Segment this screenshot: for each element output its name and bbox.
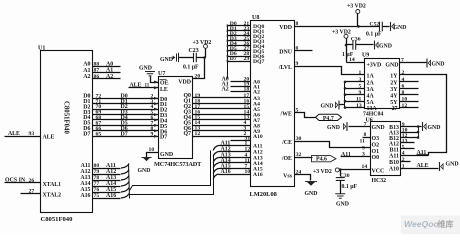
svg-text:O0: O0: [372, 155, 380, 161]
U9 3A pin 5: [345, 88, 365, 90]
GND symbol at U6 pin 7: [346, 122, 348, 131]
svg-text:D7: D7: [83, 131, 90, 137]
ground symbol at U8 Vss: [307, 182, 316, 186]
svg-text:GND: GND: [432, 62, 445, 68]
bus entry hook A12 (left): [121, 170, 129, 175]
U6 A10 wire / net ALE: [401, 168, 439, 170]
U8 A13 pin 4 stub / net A13: [219, 157, 251, 159]
U8 A1 pin 19 stub / net A1: [231, 86, 251, 88]
svg-text:88: 88: [94, 61, 100, 67]
U7 Q1 pin 18 wire to U8 A4: [193, 103, 251, 105]
svg-text:14: 14: [349, 57, 355, 63]
U7 Q5 pin 14 wire to U8 A8: [193, 125, 251, 127]
svg-text:30: 30: [296, 136, 302, 142]
U1 pin 76 A15 wire / net A15: [93, 192, 121, 194]
svg-text:P4.6: P4.6: [316, 157, 327, 163]
U6 B11 stub: [401, 148, 415, 150]
svg-text:1Y: 1Y: [390, 73, 398, 79]
U9 input bus vertical (tied inputs): [344, 82, 346, 108]
bus entry hook A11 (left): [121, 164, 129, 169]
svg-text:8: 8: [296, 21, 299, 27]
U8 DQ5 pin 27 stub / net D5: [228, 50, 251, 52]
svg-text:GND: GND: [394, 25, 407, 31]
U8 A10 pin 31 stub: [231, 140, 251, 142]
svg-text:/LVL: /LVL: [278, 65, 292, 71]
svg-text:1: 1: [359, 70, 362, 76]
svg-text:4A: 4A: [367, 93, 375, 99]
svg-text:/CE: /CE: [281, 140, 292, 146]
bus exit hook A15 (right riser): [213, 169, 218, 174]
svg-text:P4.7: P4.7: [323, 116, 334, 122]
svg-text:+3 VD2: +3 VD2: [347, 4, 366, 10]
U7 OE pin wire from GND: [151, 77, 159, 83]
svg-text:9: 9: [151, 131, 154, 137]
U8 A15 pin 7 stub / net A15: [219, 168, 251, 170]
svg-text:86: 86: [94, 74, 100, 80]
U1 pin 65 D7 wire to U7 / net D7: [93, 136, 159, 138]
svg-text:GND: GND: [138, 168, 151, 174]
svg-text:11: 11: [360, 139, 366, 145]
IC U8 memory LM20L08 body: [251, 21, 295, 187]
svg-text:A2: A2: [83, 74, 90, 80]
svg-text:VDD: VDD: [178, 80, 191, 86]
svg-text:13: 13: [356, 103, 362, 109]
svg-text:GND: GND: [139, 66, 152, 72]
bus exit hook A12 (right riser): [213, 152, 218, 157]
U8 A16 pin 10 stub / net A16: [219, 174, 251, 176]
U7 VDD pin 20 wire to +3VD2 node: [193, 58, 205, 79]
U9 4A pin 9: [345, 94, 365, 96]
svg-text:维库: 维库: [438, 219, 454, 229]
svg-text:U1: U1: [38, 46, 45, 52]
svg-text:LM20L08: LM20L08: [250, 191, 277, 198]
svg-text:93: 93: [29, 131, 35, 137]
U1 pin 66 D6 wire to U7 / net D6: [93, 130, 159, 132]
U8 data bus vertical: [227, 25, 229, 79]
svg-text:A16: A16: [221, 169, 231, 175]
svg-text:A2: A2: [253, 89, 260, 95]
svg-text:26: 26: [29, 178, 35, 184]
bus exit hook A16 (right riser): [213, 174, 218, 179]
svg-text:3: 3: [359, 77, 362, 83]
U6 A11 wire / net A11: [401, 155, 429, 157]
bus exit hook A14 (right riser): [213, 163, 218, 168]
U8 DQ7 pin 29 stub / net D7: [228, 61, 251, 63]
U1 pin 75 A16 wire / net A16: [93, 198, 121, 200]
svg-text:VDD: VDD: [279, 25, 292, 31]
svg-text:9: 9: [359, 90, 362, 96]
svg-text:2Y: 2Y: [390, 81, 398, 87]
U1 pin 78 A13 wire / net A13: [93, 180, 121, 182]
svg-text:18: 18: [244, 86, 250, 92]
U8 A2 pin 18 stub / net A2: [231, 91, 251, 93]
power tap circle for C36 rail: [344, 34, 348, 38]
svg-text:HC32: HC32: [372, 178, 387, 184]
svg-text:D7: D7: [121, 131, 128, 137]
WeeQoo watermark: [401, 216, 460, 235]
junction C36: [345, 44, 348, 47]
U1 pin 71 D1 wire to U7 / net D1: [93, 103, 159, 105]
svg-text:+3VD: +3VD: [367, 63, 382, 69]
U8 Vss pin 24 wire to ground: [295, 175, 311, 181]
svg-text:C8051F040: C8051F040: [62, 101, 69, 134]
svg-text:27: 27: [392, 106, 398, 112]
U6 B12 wire: [401, 137, 419, 139]
svg-text:LE: LE: [160, 87, 168, 93]
svg-text:ALE: ALE: [43, 135, 55, 141]
svg-text:GND: GND: [372, 125, 385, 131]
capacitor C23 0.1uF: [194, 53, 197, 63]
svg-text:B10: B10: [389, 160, 399, 166]
svg-text:MC74HC573ADT: MC74HC573ADT: [154, 161, 202, 168]
U7 Q3 pin 16 wire to U8 A6: [193, 114, 251, 116]
svg-text:9: 9: [296, 61, 299, 67]
bus entry hook A13 (left): [121, 176, 129, 181]
svg-text:4Y: 4Y: [390, 93, 398, 99]
U9 GND pin 7 wire to GND: [400, 62, 427, 64]
svg-text:12: 12: [195, 131, 201, 137]
capacitor C30 0.1uF to GND: [340, 170, 342, 177]
svg-text:0.1 µF: 0.1 µF: [183, 65, 199, 71]
U6 A13 wire: [401, 132, 419, 134]
svg-text:GND: GND: [321, 104, 334, 110]
svg-text:0.1 µF: 0.1 µF: [366, 32, 382, 38]
svg-text:75: 75: [94, 193, 100, 199]
GND at U6 A10: [439, 162, 441, 171]
U7 Q4 pin 15 wire to U8 A7: [193, 119, 251, 121]
U8 DNU pin 6 stub: [295, 50, 313, 52]
U7 Q7 pin 12 wire to U8 A10: [193, 136, 251, 138]
svg-text:A0: A0: [106, 61, 113, 67]
IC U6 HC32 body: [371, 122, 401, 176]
U7 Q2 pin 17 wire to U8 A5: [193, 108, 251, 110]
svg-text:5A: 5A: [367, 100, 375, 106]
address bus band bottom edge: [130, 155, 214, 195]
svg-text:A1: A1: [106, 68, 113, 74]
U1 pin 79 A12 wire / net A12: [93, 174, 121, 176]
svg-text:U9: U9: [362, 53, 369, 59]
svg-text:A0: A0: [83, 62, 90, 68]
ground symbol below U7: [143, 158, 151, 162]
GND tie on U9 input bus: [340, 104, 345, 106]
svg-text:OE: OE: [160, 81, 169, 87]
junction +3VD2 / VDD: [357, 25, 360, 28]
svg-text:A11: A11: [417, 150, 427, 156]
U9 13A pin 13: [345, 107, 365, 109]
U8 A12 pin 12 stub / net A12: [219, 151, 251, 153]
svg-text:3A: 3A: [367, 87, 375, 93]
U8 DQ0 pin 21 stub / net D0: [228, 25, 251, 27]
U8 /OE pin 32 wire to P4.6: [295, 157, 313, 159]
svg-text:31: 31: [245, 136, 251, 142]
svg-text:GND: GND: [446, 162, 459, 168]
U8 /WE pin 5 wire to P4.7: [295, 113, 316, 118]
svg-text:7: 7: [401, 58, 404, 64]
svg-text:O3: O3: [372, 136, 380, 142]
svg-text:Vss: Vss: [283, 174, 293, 180]
IC U1 C8051F040 microcontroller body: [41, 51, 93, 213]
U1 pin 87 A1 wire / net A1: [93, 72, 121, 74]
U8 A11 pin 1 stub / net A11: [219, 145, 251, 147]
U9 5A pin 11: [345, 101, 365, 103]
svg-text:A2: A2: [106, 74, 113, 80]
U1 pin 67 D5 wire to U7 / net D5: [93, 125, 159, 127]
svg-text:/WE: /WE: [280, 112, 293, 118]
svg-text:+3 VD2: +3 VD2: [332, 30, 351, 36]
svg-text:87: 87: [94, 68, 100, 74]
U9 2A pin 3: [345, 81, 365, 83]
svg-text:11: 11: [356, 96, 362, 102]
svg-text:U8: U8: [252, 15, 259, 21]
U8 A14 pin 11 stub / net A14: [219, 162, 251, 164]
svg-text:DQ7: DQ7: [253, 59, 264, 65]
svg-text:GND: GND: [379, 44, 392, 50]
bus exit hook A11 (right riser): [213, 146, 218, 151]
svg-text:GND: GND: [160, 152, 173, 158]
svg-text:DNU: DNU: [279, 50, 293, 56]
bus entry hook A14 (left): [121, 182, 129, 187]
svg-text:A16: A16: [106, 193, 116, 199]
net connector P4.7: [316, 114, 342, 120]
U8 /CE pin 30 wire to U6: [295, 142, 371, 148]
svg-text:XTAL2: XTAL2: [43, 193, 62, 199]
U1 pin 86 A2 wire / net A2: [93, 78, 121, 80]
svg-text:A1: A1: [83, 68, 90, 74]
svg-text:29: 29: [244, 56, 250, 62]
U1 pin 72 D0 wire to U7 / net D0: [93, 98, 159, 100]
net connector P4.6: [312, 156, 337, 162]
svg-text:7: 7: [364, 121, 367, 127]
svg-text:U7: U7: [158, 71, 165, 77]
svg-text:Q7: Q7: [183, 131, 191, 137]
U9 1Y wire down right edge to U6 A11: [400, 75, 447, 156]
svg-text:WeeQoo: WeeQoo: [404, 219, 439, 229]
U1 pin 80 A11 wire / net A11: [93, 168, 121, 170]
U6 B10 stub: [401, 161, 411, 163]
svg-text:24: 24: [296, 170, 302, 176]
capacitor C36 1uF: [347, 44, 353, 46]
U6 GND pin 7 wire: [349, 126, 371, 128]
svg-text:GND: GND: [305, 191, 318, 197]
svg-text:1A: 1A: [367, 73, 375, 79]
svg-text:A11: A11: [389, 153, 399, 159]
U1 pin 77 A14 wire / net A14: [93, 186, 121, 188]
svg-text:27: 27: [29, 189, 35, 195]
U1 pin 69 D3 wire to U7 / net D3: [93, 114, 159, 116]
svg-text:A16: A16: [253, 172, 263, 178]
svg-text:+3 VD2: +3 VD2: [193, 40, 212, 46]
svg-text:0.1 µF: 0.1 µF: [342, 184, 358, 190]
bus entry hook A16 (left): [121, 194, 129, 199]
bus exit hook A13 (right riser): [213, 158, 218, 163]
U6 A12 stub: [401, 142, 415, 144]
svg-text:3: 3: [362, 152, 365, 158]
tie vertical B13-B12: [418, 127, 420, 138]
svg-text:VCC: VCC: [372, 169, 385, 175]
svg-text:5: 5: [296, 108, 299, 114]
svg-text:/OE: /OE: [281, 156, 292, 162]
svg-text:4: 4: [402, 77, 405, 83]
svg-text:A2: A2: [222, 86, 229, 92]
svg-text:+3 VD2: +3 VD2: [313, 169, 332, 175]
U1 pin 93 ALE wire: [5, 136, 41, 138]
U8 VDD pin 8 wire to +3VD2: [295, 26, 359, 28]
svg-text:GND: GND: [428, 125, 441, 131]
svg-text:3Y: 3Y: [390, 87, 398, 93]
U8 DQ2 pin 24 stub / net D2: [228, 35, 251, 37]
svg-text:O1: O1: [372, 149, 380, 155]
svg-text:2A: 2A: [367, 81, 375, 87]
svg-text:GND: GND: [160, 57, 173, 63]
svg-text:D7: D7: [160, 135, 167, 141]
U8 DQ4 pin 26 stub / net D4: [228, 45, 251, 47]
U8 DQ1 pin 23 stub / net D1: [228, 30, 251, 32]
svg-text:C8051F040: C8051F040: [41, 216, 74, 223]
svg-text:10: 10: [245, 169, 251, 175]
svg-text:D7: D7: [230, 56, 237, 62]
svg-text:13A: 13A: [367, 106, 378, 112]
U7 LE pin wire: [129, 87, 159, 89]
svg-text:5: 5: [359, 84, 362, 90]
U8 A0 pin 20 stub / net A0: [231, 81, 251, 83]
U1 pin 68 D4 wire to U7 / net D4: [93, 119, 159, 121]
svg-text:ALE: ALE: [8, 131, 20, 137]
svg-text:65: 65: [96, 131, 102, 137]
U1 pin 88 A0 wire / net A0: [93, 66, 121, 68]
svg-text:8: 8: [364, 132, 367, 138]
U7 Q6 pin 13 wire to U8 A9: [193, 130, 251, 132]
bus entry hook A15 (left): [121, 188, 129, 193]
svg-text:XTAL1: XTAL1: [43, 182, 62, 188]
svg-text:32: 32: [296, 152, 302, 158]
svg-text:5Y: 5Y: [390, 100, 398, 106]
svg-text:ALE: ALE: [417, 163, 429, 169]
U6 O3 pin 8 stub: [363, 137, 371, 139]
IC U7 latch MC74HC573ADT body: [159, 77, 193, 159]
U1 pin 27 XTAL2 wire: [21, 193, 41, 195]
U6 O0 pin 3 wire / net A11: [341, 156, 371, 158]
svg-text:6: 6: [296, 46, 299, 52]
svg-text:GND: GND: [385, 63, 398, 69]
address bus band top edge: [130, 151, 211, 191]
U8 /LVL pin 9 wire to U9 1A: [295, 67, 365, 75]
svg-text:GND: GND: [336, 202, 349, 208]
U6 VCC pin 14 wire from +3VD2: [341, 169, 371, 171]
svg-text:14: 14: [362, 164, 368, 170]
svg-text:OCS IN: OCS IN: [5, 178, 26, 184]
U8 DQ6 pin 28 stub / net D6: [228, 56, 251, 58]
svg-text:A10: A10: [389, 166, 399, 172]
svg-text:A16: A16: [80, 193, 90, 199]
IC U9 74HC04 body: [365, 59, 400, 109]
svg-text:A11: A11: [341, 152, 351, 158]
U8 DQ3 pin 25 stub / net D3: [228, 40, 251, 42]
svg-text:GND: GND: [327, 125, 340, 131]
U1 pin 70 D2 wire to U7 / net D2: [93, 109, 159, 111]
U9 +3VD pin 14 wire: [347, 62, 365, 64]
svg-text:O2: O2: [372, 142, 380, 148]
U6 B13 wire to GND: [401, 126, 422, 128]
capacitor C52 0.1uF: [359, 26, 380, 28]
svg-text:A10: A10: [253, 134, 263, 140]
svg-text:20: 20: [195, 74, 201, 80]
U7 Q0 pin 19 wire to U8 A3: [193, 97, 251, 99]
U1 pin 26 XTAL1 wire: [5, 182, 41, 184]
address bus left gather line: [129, 164, 130, 199]
